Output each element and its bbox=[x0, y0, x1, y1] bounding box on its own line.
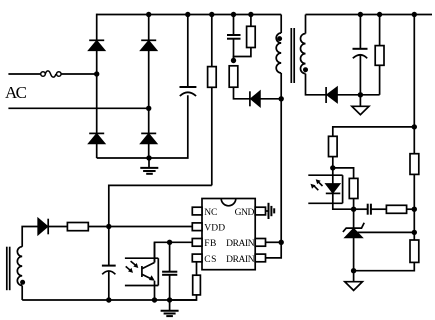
node FB cap junction bbox=[167, 240, 172, 245]
svg-text:NC: NC bbox=[204, 208, 217, 218]
wire bridge right leg bbox=[148, 15, 150, 41]
ground primary GND1 bbox=[140, 158, 158, 174]
node comp to divider bbox=[412, 207, 417, 212]
IC U1 notch bbox=[221, 199, 236, 206]
diode D1 bridge top-left bbox=[89, 40, 104, 50]
capacitor C4 output bbox=[353, 15, 368, 95]
wire CS pin down bbox=[196, 262, 198, 275]
node AC2 junction bbox=[146, 106, 151, 111]
wire to parallel resistor bbox=[333, 168, 354, 179]
transformer T1 primary winding bbox=[276, 15, 281, 99]
svg-text:AC: AC bbox=[5, 83, 27, 102]
wire DRAIN upper pin bbox=[266, 241, 282, 243]
wire bottom rail secondary side bbox=[22, 299, 196, 301]
capacitor C5 FB bbox=[162, 242, 177, 300]
svg-text:GND: GND bbox=[235, 208, 255, 218]
node opto LED top junction bbox=[330, 165, 335, 170]
pin NC box bbox=[192, 207, 202, 215]
node output junction bbox=[358, 92, 363, 97]
node drain snubber junction bbox=[279, 96, 284, 101]
diode D4 bridge bottom-right bbox=[141, 133, 156, 143]
node primary polarity dot bbox=[277, 36, 282, 41]
node ref junction bbox=[412, 230, 417, 235]
node AC1 junction bbox=[94, 71, 99, 76]
pin FB box bbox=[192, 239, 202, 247]
resistor R3 snubber series bbox=[229, 66, 250, 99]
ground IC GND pin (bar style) bbox=[266, 203, 275, 219]
wire top rail primary bbox=[97, 14, 282, 16]
wire bridge left leg bbox=[96, 14, 98, 41]
LED D7 optocoupler bbox=[326, 175, 354, 209]
pin GND box bbox=[255, 207, 265, 215]
resistor R4 current sense bbox=[170, 275, 201, 300]
capacitor C1 bulk bbox=[180, 15, 197, 97]
node secondary polarity dot bbox=[303, 67, 308, 72]
LED light arrows bbox=[311, 179, 323, 190]
node compensation junction bbox=[351, 207, 356, 212]
resistor R11 divider lower bbox=[354, 240, 419, 271]
ground bottom GND2 bbox=[161, 300, 179, 316]
svg-text:DRAIN: DRAIN bbox=[226, 239, 255, 249]
wire top rail secondary bbox=[306, 14, 433, 16]
pin VDD box bbox=[192, 223, 202, 231]
wire AC line 1 bbox=[8, 73, 40, 75]
ground secondary output (open triangle) bbox=[352, 95, 369, 115]
resistor R10 compensation bbox=[386, 205, 414, 213]
pin DRAIN upper box bbox=[255, 239, 265, 247]
node C6 bottom bbox=[106, 297, 111, 302]
node TL431 bottom junction bbox=[351, 268, 356, 273]
transformer T1 secondary winding bbox=[301, 15, 327, 95]
node C4 top bbox=[358, 12, 363, 17]
pin DRAIN lower box bbox=[255, 254, 265, 262]
diode D5 snubber clamp bbox=[250, 91, 281, 106]
resistor R7 opto parallel bbox=[349, 178, 358, 209]
node R2 top bbox=[248, 12, 253, 17]
diode D6 output rectifier bbox=[326, 87, 380, 103]
svg-text:CS: CS bbox=[204, 255, 216, 265]
ground secondary lower (open triangle) bbox=[345, 271, 363, 291]
wire FB pin bbox=[155, 242, 193, 262]
node R1 top bbox=[209, 12, 214, 17]
svg-text:DRAIN: DRAIN bbox=[226, 255, 255, 265]
transformer aux core bbox=[7, 247, 10, 291]
node aux polarity dot bbox=[20, 280, 25, 285]
transformer T1 aux winding bbox=[17, 227, 38, 301]
resistor R8 divider upper bbox=[410, 154, 419, 175]
wire feedback right line middle bbox=[413, 174, 415, 240]
IC U1 body bbox=[202, 199, 255, 270]
node feedback rail top bbox=[412, 12, 417, 17]
phototransistor light arrows bbox=[126, 261, 139, 273]
wire VDD pin bbox=[109, 226, 193, 228]
pin CS box bbox=[192, 254, 202, 262]
wire bridge bottom rail bbox=[97, 95, 188, 158]
wire feedback right line upper bbox=[413, 15, 415, 154]
diode D8 aux rectifier bbox=[38, 219, 67, 235]
diode D2 bridge top-right bbox=[141, 40, 156, 50]
optocoupler U2 transistor side box bbox=[125, 258, 158, 285]
node opto branch junction bbox=[412, 124, 417, 129]
resistor R6 opto series bbox=[329, 136, 338, 175]
svg-text:FB: FB bbox=[204, 239, 216, 249]
wire startup to VDD line bbox=[109, 185, 212, 226]
node bottom rail ground tap bbox=[146, 155, 151, 160]
transformer T1 core bbox=[291, 28, 294, 83]
capacitor C6 VDD bbox=[102, 227, 116, 301]
optocoupler U2 LED side box bbox=[308, 175, 342, 203]
node VDD junction bbox=[106, 224, 111, 229]
node C2 top bbox=[231, 12, 236, 17]
capacitor C7 compensation bbox=[354, 204, 387, 215]
fuse F1 bbox=[41, 71, 61, 77]
wire opto branch top bbox=[333, 127, 415, 136]
node top rail right leg bbox=[146, 12, 151, 17]
phototransistor Q1 bbox=[142, 242, 155, 300]
node snubber junction bbox=[231, 58, 236, 63]
wire AC line 2 bbox=[8, 107, 148, 109]
node C1 top bbox=[185, 12, 190, 17]
node FB cap to rail bbox=[167, 297, 172, 302]
capacitor C2 snubber bbox=[227, 15, 241, 61]
TL431 U3 bbox=[343, 209, 414, 271]
node drain junction bbox=[279, 240, 284, 245]
wire drain vertical bbox=[266, 99, 282, 258]
node emitter to rail bbox=[152, 297, 157, 302]
resistor R5 output load bbox=[375, 15, 384, 95]
resistor R2 snubber bbox=[234, 15, 256, 61]
resistor R9 VDD series bbox=[67, 223, 108, 231]
resistor R1 startup bbox=[208, 15, 217, 186]
svg-text:VDD: VDD bbox=[204, 224, 225, 234]
diode D3 bridge bottom-left bbox=[89, 133, 104, 143]
node R5 top bbox=[377, 12, 382, 17]
